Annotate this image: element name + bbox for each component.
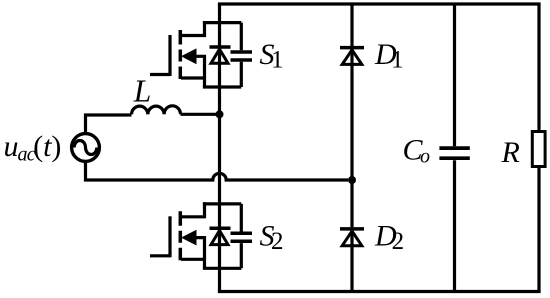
svg-text:R: R [501, 136, 520, 169]
svg-text:S2: S2 [260, 220, 284, 256]
svg-text:L: L [133, 74, 152, 109]
svg-text:uac(t): uac(t) [4, 130, 62, 165]
svg-text:S1: S1 [260, 38, 284, 74]
svg-text:Co: Co [403, 134, 431, 168]
svg-text:D1: D1 [374, 38, 404, 74]
svg-text:D2: D2 [374, 220, 404, 256]
